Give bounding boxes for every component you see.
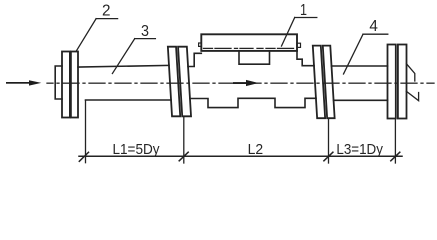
dimension tick slash at L3 end	[391, 152, 400, 161]
outlet pipe break chamfer top	[407, 64, 415, 81]
svg-text:L2: L2	[248, 141, 264, 158]
extension line between L2 and L3	[328, 119, 330, 164]
pipe section 4 top edge	[332, 65, 388, 67]
extension line at L3 end	[394, 119, 396, 163]
extension line at L1 start	[85, 101, 87, 163]
leader line for label 3	[112, 39, 134, 74]
inlet pipe stub	[55, 66, 62, 99]
svg-text:4: 4	[369, 18, 378, 35]
flange B right plate	[178, 47, 191, 117]
pipe section 3 top edge	[78, 65, 169, 67]
inlet flow arrow	[6, 80, 41, 85]
cover right tab	[297, 43, 301, 47]
flange pair D: right plate	[398, 45, 407, 119]
flange pair 2: right plate	[71, 52, 78, 118]
flange pair 2: left plate	[62, 52, 70, 118]
svg-text:1: 1	[300, 2, 307, 19]
flange B left plate	[168, 47, 180, 117]
cover seam hatch	[204, 47, 296, 49]
outlet pipe break chamfer bottom	[406, 91, 418, 100]
leader line for label 1	[282, 18, 295, 47]
dimension tick slash between L2 and L3	[324, 152, 333, 161]
label 3 shelf	[135, 38, 156, 40]
svg-text:L3=1Dy: L3=1Dy	[336, 141, 383, 158]
pipe section 3 bottom edge	[86, 99, 172, 101]
flange C left plate	[313, 46, 325, 119]
cover left tab	[199, 43, 202, 46]
flange C right plate	[323, 46, 335, 119]
label 2 shelf	[96, 18, 118, 20]
meter body right shoulder	[297, 51, 314, 66]
leader line for label 4	[344, 34, 364, 74]
meter body bottom stepped profile	[190, 98, 316, 107]
label 1 shelf	[295, 17, 317, 19]
meter cover box 1	[201, 34, 297, 51]
pipe centerline (dash-dot axis)	[47, 82, 434, 84]
meter body left shoulder	[188, 53, 201, 66]
dimension tick slash at L1 start	[79, 152, 88, 161]
dimension line	[79, 155, 402, 157]
meter neck boss	[239, 51, 270, 64]
flange pair B (meter inlet)	[168, 47, 191, 117]
flange pair D: left plate	[388, 45, 396, 119]
svg-text:3: 3	[141, 23, 149, 40]
flow direction arrow on axis	[233, 80, 259, 86]
dimension tick slash between L1 and L2	[179, 152, 188, 161]
pipe section 4 bottom edge	[334, 99, 388, 101]
svg-text:L1=5Dy: L1=5Dy	[113, 141, 160, 158]
svg-text:2: 2	[102, 3, 111, 20]
extension line between L1 and L2	[183, 117, 185, 164]
leader line for label 2	[76, 19, 96, 52]
flange pair C (meter outlet)	[313, 46, 335, 119]
label 4 shelf	[363, 33, 388, 35]
